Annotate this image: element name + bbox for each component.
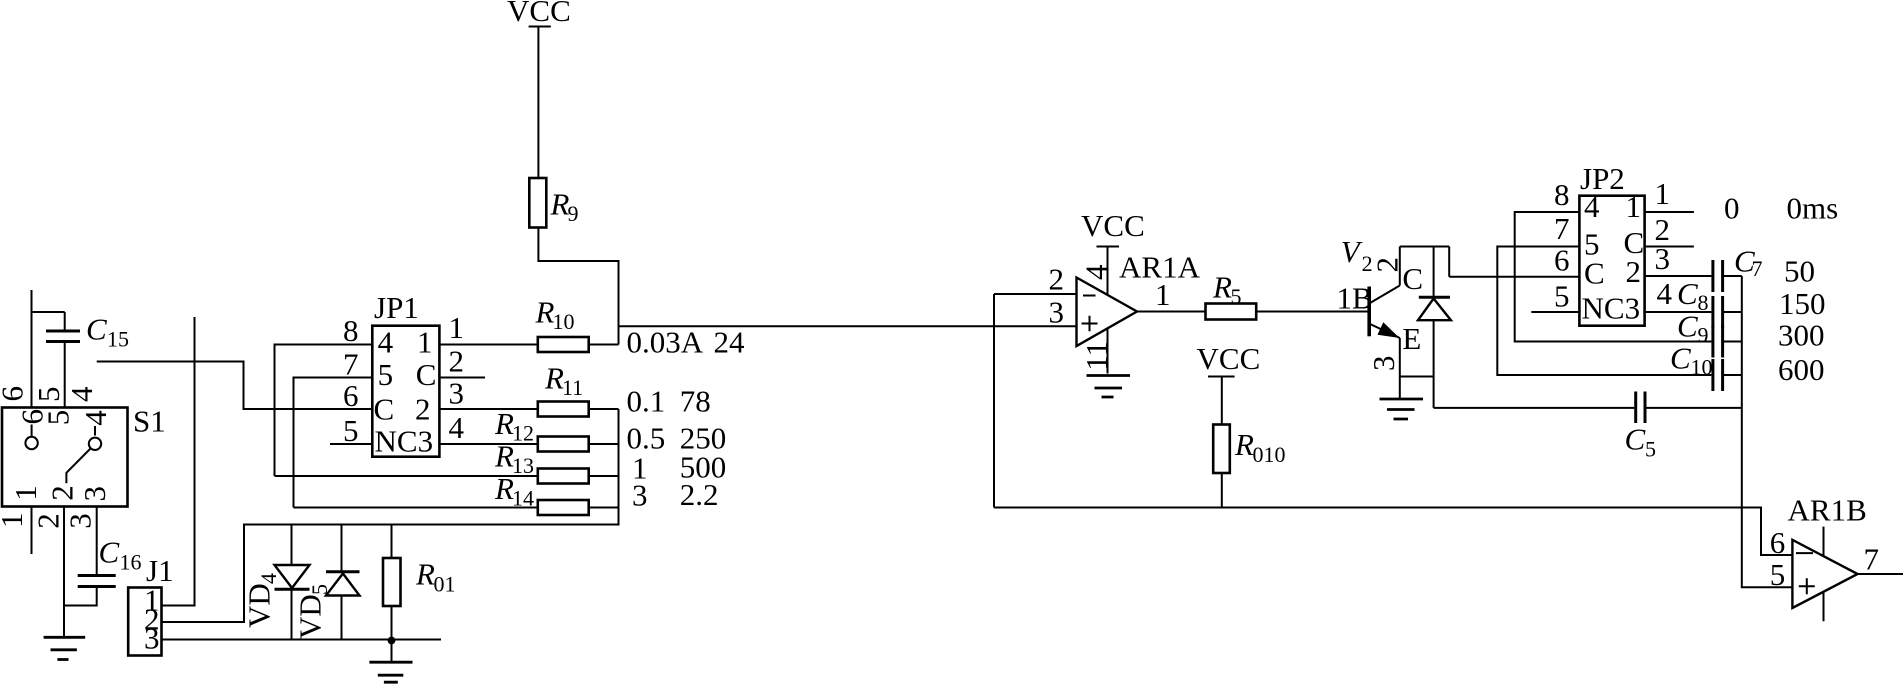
svg-text:78: 78 (680, 384, 711, 419)
svg-text:15: 15 (107, 327, 129, 352)
svg-text:3: 3 (144, 621, 160, 656)
svg-text:1: 1 (417, 325, 433, 360)
svg-text:0.03A: 0.03A (627, 325, 704, 360)
svg-text:4: 4 (378, 325, 394, 360)
svg-text:600: 600 (1778, 352, 1825, 387)
svg-text:2: 2 (1049, 262, 1065, 297)
svg-text:VD: VD (242, 583, 277, 628)
svg-text:50: 50 (1784, 254, 1815, 289)
svg-text:2: 2 (1626, 254, 1642, 289)
svg-text:4: 4 (449, 410, 465, 445)
svg-text:7: 7 (1864, 542, 1880, 577)
svg-text:1B: 1B (1337, 281, 1373, 316)
svg-text:R: R (415, 557, 435, 592)
svg-text:C: C (1677, 276, 1698, 311)
svg-text:11: 11 (1079, 341, 1114, 371)
svg-text:4: 4 (1079, 264, 1114, 280)
svg-text:1: 1 (1155, 277, 1171, 312)
svg-text:C: C (1584, 256, 1605, 291)
svg-text:V: V (1341, 234, 1363, 269)
svg-text:4: 4 (78, 410, 113, 426)
svg-text:VCC: VCC (507, 0, 571, 28)
svg-text:9: 9 (568, 201, 579, 226)
svg-text:3: 3 (63, 513, 98, 529)
svg-text:NC3: NC3 (375, 424, 434, 459)
svg-text:4: 4 (1584, 189, 1600, 224)
svg-text:7: 7 (343, 347, 359, 382)
svg-text:2: 2 (45, 485, 80, 501)
svg-text:14: 14 (512, 486, 534, 511)
svg-text:5: 5 (31, 387, 66, 403)
svg-text:300: 300 (1778, 318, 1825, 353)
svg-text:C: C (1670, 341, 1691, 376)
svg-text:4: 4 (256, 573, 281, 584)
svg-text:13: 13 (512, 453, 534, 478)
svg-text:3: 3 (1366, 356, 1401, 372)
svg-text:3: 3 (632, 478, 648, 513)
svg-text:4: 4 (1657, 276, 1673, 311)
svg-text:E: E (1402, 321, 1421, 356)
svg-text:150: 150 (1779, 286, 1826, 321)
svg-text:NC3: NC3 (1582, 291, 1641, 326)
svg-text:0: 0 (1724, 191, 1740, 226)
svg-text:1: 1 (449, 310, 465, 345)
svg-text:R: R (494, 439, 514, 474)
svg-text:16: 16 (120, 550, 142, 575)
svg-text:3: 3 (449, 376, 465, 411)
svg-text:2: 2 (31, 513, 66, 529)
svg-text:VCC: VCC (1081, 208, 1145, 243)
svg-text:2: 2 (449, 344, 465, 379)
svg-text:24: 24 (714, 325, 746, 360)
svg-text:VD: VD (293, 594, 328, 639)
svg-text:C: C (374, 392, 395, 427)
svg-text:2: 2 (415, 392, 431, 427)
svg-text:6: 6 (1554, 243, 1570, 278)
svg-text:C: C (1677, 309, 1698, 344)
svg-text:VCC: VCC (1197, 341, 1261, 376)
svg-text:R: R (494, 471, 514, 506)
svg-text:JP1: JP1 (374, 290, 419, 325)
svg-text:6: 6 (343, 378, 359, 413)
svg-text:10: 10 (553, 309, 575, 334)
svg-text:9: 9 (1698, 323, 1709, 348)
svg-text:2.2: 2.2 (680, 477, 719, 512)
svg-text:0ms: 0ms (1787, 191, 1839, 226)
svg-text:5: 5 (1554, 279, 1570, 314)
svg-text:5: 5 (378, 357, 394, 392)
svg-text:5: 5 (1231, 284, 1242, 309)
svg-text:R: R (544, 361, 564, 396)
svg-text:AR1B: AR1B (1788, 493, 1867, 528)
svg-text:5: 5 (307, 584, 332, 595)
svg-text:7: 7 (1554, 211, 1570, 246)
svg-text:C: C (86, 312, 107, 347)
svg-text:5: 5 (343, 413, 359, 448)
svg-text:3: 3 (77, 486, 112, 502)
svg-text:C: C (1625, 422, 1646, 457)
svg-text:1: 1 (8, 485, 43, 501)
svg-text:R: R (535, 295, 555, 330)
svg-text:1: 1 (1655, 176, 1671, 211)
svg-text:C: C (1402, 261, 1423, 296)
svg-text:R: R (494, 406, 514, 441)
svg-text:010: 010 (1253, 442, 1286, 467)
svg-text:6: 6 (1770, 525, 1786, 560)
svg-text:1: 1 (1626, 189, 1642, 224)
svg-text:5: 5 (41, 410, 76, 426)
svg-text:1: 1 (0, 513, 29, 529)
svg-text:7: 7 (1752, 256, 1763, 281)
svg-text:6: 6 (0, 386, 30, 402)
svg-text:01: 01 (434, 572, 456, 597)
svg-text:10: 10 (1691, 355, 1713, 380)
svg-text:5: 5 (1770, 557, 1786, 592)
svg-text:0.1: 0.1 (627, 384, 666, 419)
svg-text:12: 12 (512, 421, 534, 446)
svg-text:8: 8 (343, 313, 359, 348)
svg-text:5: 5 (1645, 437, 1656, 462)
svg-text:8: 8 (1698, 290, 1709, 315)
svg-text:8: 8 (1554, 177, 1570, 212)
svg-text:S1: S1 (133, 404, 166, 439)
svg-text:3: 3 (1049, 295, 1065, 330)
svg-text:C: C (416, 357, 437, 392)
svg-text:11: 11 (562, 375, 583, 400)
svg-text:R: R (1212, 270, 1232, 305)
svg-text:4: 4 (64, 386, 99, 402)
svg-text:R: R (550, 187, 570, 222)
svg-text:C: C (99, 535, 120, 570)
svg-text:R: R (1234, 427, 1254, 462)
